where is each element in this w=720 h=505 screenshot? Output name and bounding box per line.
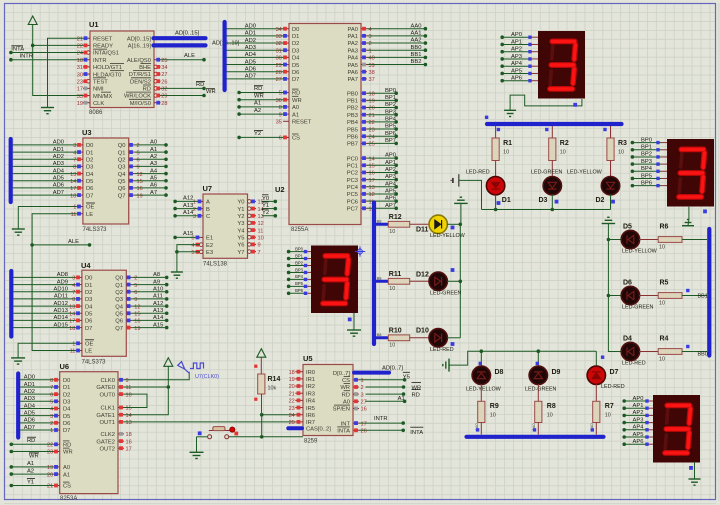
svg-text:10k: 10k <box>268 386 277 392</box>
svg-text:11: 11 <box>126 385 132 391</box>
svg-text:23: 23 <box>289 406 295 412</box>
svg-text:29: 29 <box>161 94 167 100</box>
wire U3 OE to ground <box>18 207 77 230</box>
svg-text:D5: D5 <box>63 414 70 420</box>
svg-text:AD2: AD2 <box>24 389 35 395</box>
svg-text:LED-YELLOW: LED-YELLOW <box>567 170 603 176</box>
svg-text:BB1: BB1 <box>411 52 422 58</box>
svg-text:SP/EN: SP/EN <box>333 407 350 413</box>
svg-text:BP0: BP0 <box>385 88 396 94</box>
svg-text:OUT2: OUT2 <box>100 446 115 452</box>
svg-text:ALE/QS0: ALE/QS0 <box>127 58 151 64</box>
svg-text:INTA/QS1: INTA/QS1 <box>93 51 119 57</box>
svg-text:1: 1 <box>361 378 364 384</box>
svg-text:RESET: RESET <box>93 36 113 42</box>
wires A12..A14 to U7 <box>173 196 197 218</box>
svg-text:1: 1 <box>72 342 75 348</box>
svg-text:2: 2 <box>361 385 364 391</box>
svg-text:10: 10 <box>490 413 496 419</box>
bus AD8..AD15 vertical (left of U4) <box>9 271 13 337</box>
svg-text:10: 10 <box>659 300 665 306</box>
svg-text:32: 32 <box>276 41 282 47</box>
svg-text:PC4: PC4 <box>347 185 359 191</box>
svg-text:37: 37 <box>369 77 375 83</box>
svg-text:WR: WR <box>29 454 39 460</box>
svg-text:PB3: PB3 <box>347 113 358 119</box>
svg-text:OUT1: OUT1 <box>100 420 115 426</box>
svg-text:PC7: PC7 <box>347 206 358 212</box>
wire RD to U2 <box>237 86 283 95</box>
svg-text:6: 6 <box>50 392 53 398</box>
svg-text:INTA: INTA <box>337 429 350 435</box>
wires U3 outputs A0..A7 <box>135 140 168 197</box>
svg-text:RD: RD <box>342 392 350 398</box>
svg-text:Y2: Y2 <box>254 131 261 137</box>
svg-text:AP4: AP4 <box>633 425 645 431</box>
svg-text:PC2: PC2 <box>347 171 358 177</box>
resistor R3 10 + LED D2 (yellow, dark) <box>567 126 627 210</box>
svg-text:LED-RED: LED-RED <box>601 384 625 390</box>
svg-text:17: 17 <box>77 87 83 93</box>
svg-text:12: 12 <box>258 221 264 227</box>
svg-text:4: 4 <box>191 243 194 249</box>
svg-text:D5: D5 <box>292 63 299 69</box>
bus AD[0..7] vertical (mid) <box>372 203 376 345</box>
svg-text:19: 19 <box>289 377 295 383</box>
svg-text:AD[0..7]: AD[0..7] <box>382 365 403 371</box>
svg-text:AP5: AP5 <box>385 189 396 195</box>
svg-text:D3: D3 <box>63 400 70 406</box>
svg-text:3: 3 <box>72 276 75 282</box>
svg-text:BP7: BP7 <box>385 138 396 144</box>
svg-text:21: 21 <box>47 484 53 490</box>
svg-text:10: 10 <box>659 356 665 362</box>
svg-text:D0: D0 <box>63 378 70 384</box>
wire D5/D6/D4 cathode column <box>607 224 622 352</box>
ground (below U4 OE) <box>11 358 25 364</box>
svg-text:AD8: AD8 <box>57 272 68 278</box>
svg-text:A9: A9 <box>153 279 160 285</box>
svg-text:D1: D1 <box>502 197 511 204</box>
svg-text:33: 33 <box>77 94 83 100</box>
svg-text:AD5: AD5 <box>245 59 256 65</box>
svg-text:AP2: AP2 <box>511 47 522 53</box>
svg-text:D0: D0 <box>292 27 299 33</box>
svg-text:IR5: IR5 <box>306 406 315 412</box>
svg-text:A14: A14 <box>153 315 164 321</box>
svg-text:Y1: Y1 <box>237 207 244 213</box>
svg-text:2: 2 <box>193 207 196 213</box>
svg-text:LED-RED: LED-RED <box>466 170 490 176</box>
wire U6 OUT1 to U5 IR7 (long) <box>124 421 295 423</box>
ground (DISP4) <box>689 479 701 485</box>
wire U5 INTA <box>359 427 423 436</box>
svg-text:AP0: AP0 <box>385 153 396 159</box>
svg-text:U2: U2 <box>275 185 285 194</box>
svg-text:BP0: BP0 <box>641 137 652 143</box>
svg-text:10: 10 <box>503 150 509 156</box>
svg-text:RD: RD <box>412 392 420 398</box>
svg-text:17: 17 <box>369 178 375 184</box>
svg-text:AD7: AD7 <box>24 425 35 431</box>
svg-text:18: 18 <box>126 432 132 438</box>
svg-text:Y6: Y6 <box>237 243 244 249</box>
svg-text:CLK: CLK <box>93 101 104 107</box>
svg-text:2: 2 <box>134 276 137 282</box>
7-segment display DISP4 (AP bus) <box>622 395 700 479</box>
LED D5 (yellow, dark) + resistor R6 10 <box>621 224 707 255</box>
ground (below pushbutton) <box>190 437 204 459</box>
svg-text:PB2: PB2 <box>347 106 358 112</box>
svg-text:INT: INT <box>341 421 351 427</box>
wire U5 CS (Y5) <box>359 372 410 381</box>
svg-text:INTA: INTA <box>410 430 423 436</box>
svg-text:14: 14 <box>69 311 75 317</box>
svg-text:1: 1 <box>73 205 76 211</box>
svg-text:19: 19 <box>134 326 140 332</box>
svg-text:7: 7 <box>258 250 261 256</box>
svg-text:LED-GREEN: LED-GREEN <box>525 387 557 393</box>
svg-text:PA1: PA1 <box>347 34 358 40</box>
svg-text:5: 5 <box>279 91 282 97</box>
svg-text:Q3: Q3 <box>118 165 126 171</box>
svg-text:Y0: Y0 <box>262 196 269 202</box>
svg-text:3: 3 <box>369 34 372 40</box>
svg-text:D2: D2 <box>85 290 92 296</box>
bus BB vertical (right edge) <box>707 229 711 356</box>
svg-text:7: 7 <box>73 157 76 163</box>
svg-text:BP3: BP3 <box>641 159 652 165</box>
svg-text:26: 26 <box>161 79 167 85</box>
svg-text:R8: R8 <box>547 403 556 410</box>
svg-text:RD: RD <box>196 82 204 88</box>
bus AD0..AD7 vertical (left of U3) <box>9 139 13 202</box>
svg-text:CLK1: CLK1 <box>100 406 115 412</box>
IC U3 74LS373 <box>70 128 143 233</box>
wires U2 PB0-PB7 (BP nets) <box>367 88 398 145</box>
svg-text:7: 7 <box>72 290 75 296</box>
svg-text:28: 28 <box>161 101 167 107</box>
svg-text:4: 4 <box>73 150 76 156</box>
svg-text:ALE: ALE <box>68 239 79 245</box>
svg-text:8259: 8259 <box>304 439 318 445</box>
7-segment display DISP2 (BP bus) <box>631 137 714 219</box>
svg-text:15: 15 <box>134 311 140 317</box>
svg-text:U7: U7 <box>203 184 213 193</box>
svg-text:IR2: IR2 <box>306 384 315 390</box>
wire VCC to U1 READY and MN/MX <box>31 25 83 96</box>
svg-text:13: 13 <box>69 304 75 310</box>
svg-text:BP5: BP5 <box>295 281 304 286</box>
7-segment display DISP3 <box>287 246 365 331</box>
svg-text:R12: R12 <box>389 214 402 221</box>
svg-text:A1: A1 <box>398 396 405 402</box>
svg-text:BP4: BP4 <box>295 274 304 279</box>
svg-text:D7: D7 <box>63 428 70 434</box>
svg-text:D2: D2 <box>86 157 93 163</box>
svg-text:AP4: AP4 <box>511 61 523 67</box>
svg-text:B8: B8 <box>377 332 383 337</box>
svg-text:74LS138: 74LS138 <box>203 262 228 268</box>
svg-text:M/IO/S0: M/IO/S0 <box>130 101 151 107</box>
svg-text:Q2: Q2 <box>118 157 126 163</box>
svg-text:A12: A12 <box>153 301 163 307</box>
svg-text:D2: D2 <box>292 41 299 47</box>
svg-text:HOLD/GT1: HOLD/GT1 <box>93 65 122 71</box>
svg-text:A14: A14 <box>183 210 194 216</box>
svg-text:AA2: AA2 <box>411 38 422 44</box>
svg-text:Y5: Y5 <box>237 235 244 241</box>
svg-text:24: 24 <box>77 51 83 57</box>
svg-text:11: 11 <box>258 228 264 234</box>
svg-text:5: 5 <box>191 250 194 256</box>
svg-text:D6: D6 <box>292 70 299 76</box>
svg-text:B: B <box>206 207 210 213</box>
bus D[0..7] stub (U5) <box>354 365 403 372</box>
svg-text:PB0: PB0 <box>347 91 358 97</box>
svg-text:8: 8 <box>279 105 282 111</box>
svg-text:IR6: IR6 <box>306 413 315 419</box>
IC U5 8259 <box>289 354 367 445</box>
svg-text:R6: R6 <box>660 224 669 231</box>
svg-text:BP1: BP1 <box>385 95 396 101</box>
svg-text:24: 24 <box>369 134 375 140</box>
svg-text:25: 25 <box>289 420 295 426</box>
svg-text:D6: D6 <box>63 421 70 427</box>
wires U4 outputs A8..A15 <box>132 272 168 329</box>
svg-text:36: 36 <box>276 98 282 104</box>
power symbol VCC (above R14) <box>257 349 266 358</box>
svg-text:10: 10 <box>126 392 132 398</box>
wire ALE to U3 LE and U4 LE <box>30 214 91 351</box>
svg-text:1: 1 <box>50 428 53 434</box>
svg-text:A3: A3 <box>150 161 157 167</box>
svg-text:9: 9 <box>279 112 282 118</box>
svg-text:A0: A0 <box>63 465 70 471</box>
svg-text:OUT0: OUT0 <box>100 392 115 398</box>
svg-text:18: 18 <box>289 370 295 376</box>
wire A2 to U6 A1 <box>10 468 54 476</box>
resistor R14 10k <box>254 357 280 415</box>
svg-text:LED-GREEN: LED-GREEN <box>622 305 654 311</box>
svg-text:Y5: Y5 <box>403 374 410 380</box>
svg-text:6: 6 <box>134 290 137 296</box>
svg-text:AP6: AP6 <box>633 439 644 445</box>
IC U2 8255A <box>275 24 375 234</box>
svg-text:D4: D4 <box>85 304 93 310</box>
svg-text:BB1: BB1 <box>698 294 708 300</box>
svg-text:D3: D3 <box>86 165 93 171</box>
svg-text:AD2: AD2 <box>53 154 64 160</box>
wires AD8..AD15 bus to U4 <box>13 272 76 328</box>
svg-text:4: 4 <box>369 27 372 33</box>
svg-text:Y4: Y4 <box>237 228 245 234</box>
svg-text:A12: A12 <box>183 196 193 202</box>
svg-text:LED-GREEN: LED-GREEN <box>531 170 563 176</box>
svg-text:A15: A15 <box>153 322 163 328</box>
svg-text:16: 16 <box>126 439 132 445</box>
svg-text:8: 8 <box>72 297 75 303</box>
svg-text:R11: R11 <box>389 271 402 278</box>
svg-text:PA2: PA2 <box>347 41 358 47</box>
wire A1 to U6 A0 <box>10 461 54 469</box>
wire U4 OE to ground <box>18 343 76 358</box>
svg-text:34: 34 <box>161 65 167 71</box>
clock source U7(CLK0) <box>178 362 219 380</box>
svg-text:BP4: BP4 <box>385 116 397 122</box>
svg-text:AD0: AD0 <box>53 140 64 146</box>
svg-text:ALE: ALE <box>184 53 195 59</box>
svg-text:INTR: INTR <box>93 58 107 64</box>
svg-text:B8: B8 <box>377 276 383 281</box>
svg-text:Y2: Y2 <box>262 210 269 216</box>
IC U4 74LS373 <box>69 261 140 366</box>
svg-text:BB2: BB2 <box>411 59 422 65</box>
svg-text:Q6: Q6 <box>115 319 123 325</box>
svg-text:10: 10 <box>547 413 553 419</box>
svg-text:11: 11 <box>70 349 76 355</box>
svg-text:9: 9 <box>258 243 261 249</box>
wire U6 OUT0 to CLK1 <box>124 394 147 407</box>
svg-text:7: 7 <box>50 385 53 391</box>
svg-text:A8: A8 <box>153 272 160 278</box>
svg-text:6: 6 <box>279 136 282 142</box>
svg-text:INTA: INTA <box>11 47 24 53</box>
svg-text:20: 20 <box>47 472 53 478</box>
svg-text:WR: WR <box>254 93 264 99</box>
svg-text:5: 5 <box>50 400 53 406</box>
svg-text:31: 31 <box>77 65 83 71</box>
IC U6 8253A <box>47 362 132 502</box>
svg-text:BP2: BP2 <box>641 152 652 158</box>
svg-text:D0: D0 <box>86 143 93 149</box>
svg-text:OE: OE <box>86 205 95 211</box>
svg-text:B8: B8 <box>377 219 383 224</box>
svg-text:PB5: PB5 <box>347 127 358 133</box>
svg-text:34: 34 <box>276 27 282 33</box>
svg-text:D1: D1 <box>292 34 299 40</box>
svg-text:BB0: BB0 <box>698 352 708 358</box>
svg-text:8086: 8086 <box>89 110 103 116</box>
svg-text:30: 30 <box>276 56 282 62</box>
svg-text:INTR: INTR <box>20 54 34 60</box>
svg-text:3: 3 <box>73 143 76 149</box>
svg-text:PB4: PB4 <box>347 120 359 126</box>
svg-text:Q7: Q7 <box>115 326 123 332</box>
svg-text:AD15: AD15 <box>53 322 68 328</box>
svg-text:AA0: AA0 <box>411 23 422 29</box>
svg-text:D0: D0 <box>85 276 92 282</box>
svg-text:R5: R5 <box>660 280 669 287</box>
svg-text:PA4: PA4 <box>347 56 358 62</box>
svg-text:R7: R7 <box>605 403 614 410</box>
svg-text:13: 13 <box>369 185 375 191</box>
svg-text:IR0: IR0 <box>306 370 315 376</box>
svg-text:20: 20 <box>289 384 295 390</box>
svg-text:BP3: BP3 <box>385 109 396 115</box>
svg-text:GATE1: GATE1 <box>96 413 115 419</box>
svg-text:AD3: AD3 <box>245 45 256 51</box>
svg-text:AD9: AD9 <box>57 279 68 285</box>
svg-text:AP1: AP1 <box>511 39 522 45</box>
svg-text:D3: D3 <box>85 297 92 303</box>
ground (below U1 RESET wire) <box>41 108 54 114</box>
svg-text:R2: R2 <box>560 140 569 147</box>
svg-text:PA6: PA6 <box>347 70 358 76</box>
svg-text:15: 15 <box>369 163 375 169</box>
svg-text:20: 20 <box>369 106 375 112</box>
svg-text:WR: WR <box>206 89 216 95</box>
svg-text:16: 16 <box>134 319 140 325</box>
svg-text:15: 15 <box>126 406 132 412</box>
node INTA (left edge) <box>9 46 83 55</box>
svg-text:10: 10 <box>389 286 395 292</box>
svg-text:D8: D8 <box>495 369 504 376</box>
svg-text:A2: A2 <box>150 154 157 160</box>
svg-text:27: 27 <box>276 77 282 83</box>
wire U5 A0 (A1 net) <box>366 396 407 403</box>
resistor R10 10 + LED D10 (red, dark) <box>377 327 461 353</box>
wire D11/D12/D10 cathode column <box>459 203 463 337</box>
svg-text:22: 22 <box>369 120 375 126</box>
svg-text:AP0: AP0 <box>633 396 644 402</box>
ground (inverted, D10/D11/D12 column) <box>454 197 468 203</box>
svg-text:AD4: AD4 <box>24 403 36 409</box>
svg-text:D1: D1 <box>63 385 70 391</box>
svg-text:2: 2 <box>50 421 53 427</box>
svg-text:RD: RD <box>27 438 35 444</box>
svg-text:23: 23 <box>47 450 53 456</box>
svg-text:D5: D5 <box>623 224 632 231</box>
svg-text:WR: WR <box>292 98 302 104</box>
resistor R2 10 + LED D3 (green, dark) <box>531 126 569 210</box>
svg-text:AP1: AP1 <box>385 160 396 166</box>
svg-text:18: 18 <box>369 91 375 97</box>
svg-text:READY: READY <box>93 44 113 50</box>
svg-text:U5: U5 <box>303 354 313 363</box>
svg-text:LED-RED: LED-RED <box>622 361 646 367</box>
svg-text:13: 13 <box>70 172 76 178</box>
resistor R1 10 + LED D1 (red, lit) <box>466 126 512 210</box>
wire RD to U6 <box>10 437 54 446</box>
svg-text:AD10: AD10 <box>53 287 68 293</box>
svg-text:E1: E1 <box>206 236 213 242</box>
svg-text:WR/LOCK: WR/LOCK <box>124 94 151 100</box>
ground (below U7) <box>171 272 183 278</box>
wire top LED cathode return <box>482 208 611 212</box>
svg-text:A4: A4 <box>150 168 158 174</box>
svg-text:A15: A15 <box>183 231 193 237</box>
wire WR to U6 <box>10 450 54 460</box>
svg-text:22: 22 <box>47 443 53 449</box>
wires AD0..AD7 bus to U3 <box>13 140 77 196</box>
bus AD0..AD7 vertical (right of U1) <box>223 22 227 90</box>
svg-text:Q4: Q4 <box>118 172 127 178</box>
svg-text:8255A: 8255A <box>291 227 308 233</box>
svg-text:74LS373: 74LS373 <box>82 360 107 366</box>
svg-text:AD[0..15]: AD[0..15] <box>127 36 152 42</box>
svg-text:NMI: NMI <box>93 87 104 93</box>
bus (bottom LED rail) <box>467 435 604 439</box>
svg-text:BP0: BP0 <box>295 246 304 251</box>
svg-text:WR: WR <box>412 385 422 391</box>
svg-text:Y7: Y7 <box>237 250 244 256</box>
svg-text:4: 4 <box>72 283 75 289</box>
svg-text:D3: D3 <box>539 197 548 204</box>
svg-text:LE: LE <box>85 349 92 355</box>
svg-text:Q0: Q0 <box>115 276 123 282</box>
svg-text:U4: U4 <box>81 261 91 270</box>
